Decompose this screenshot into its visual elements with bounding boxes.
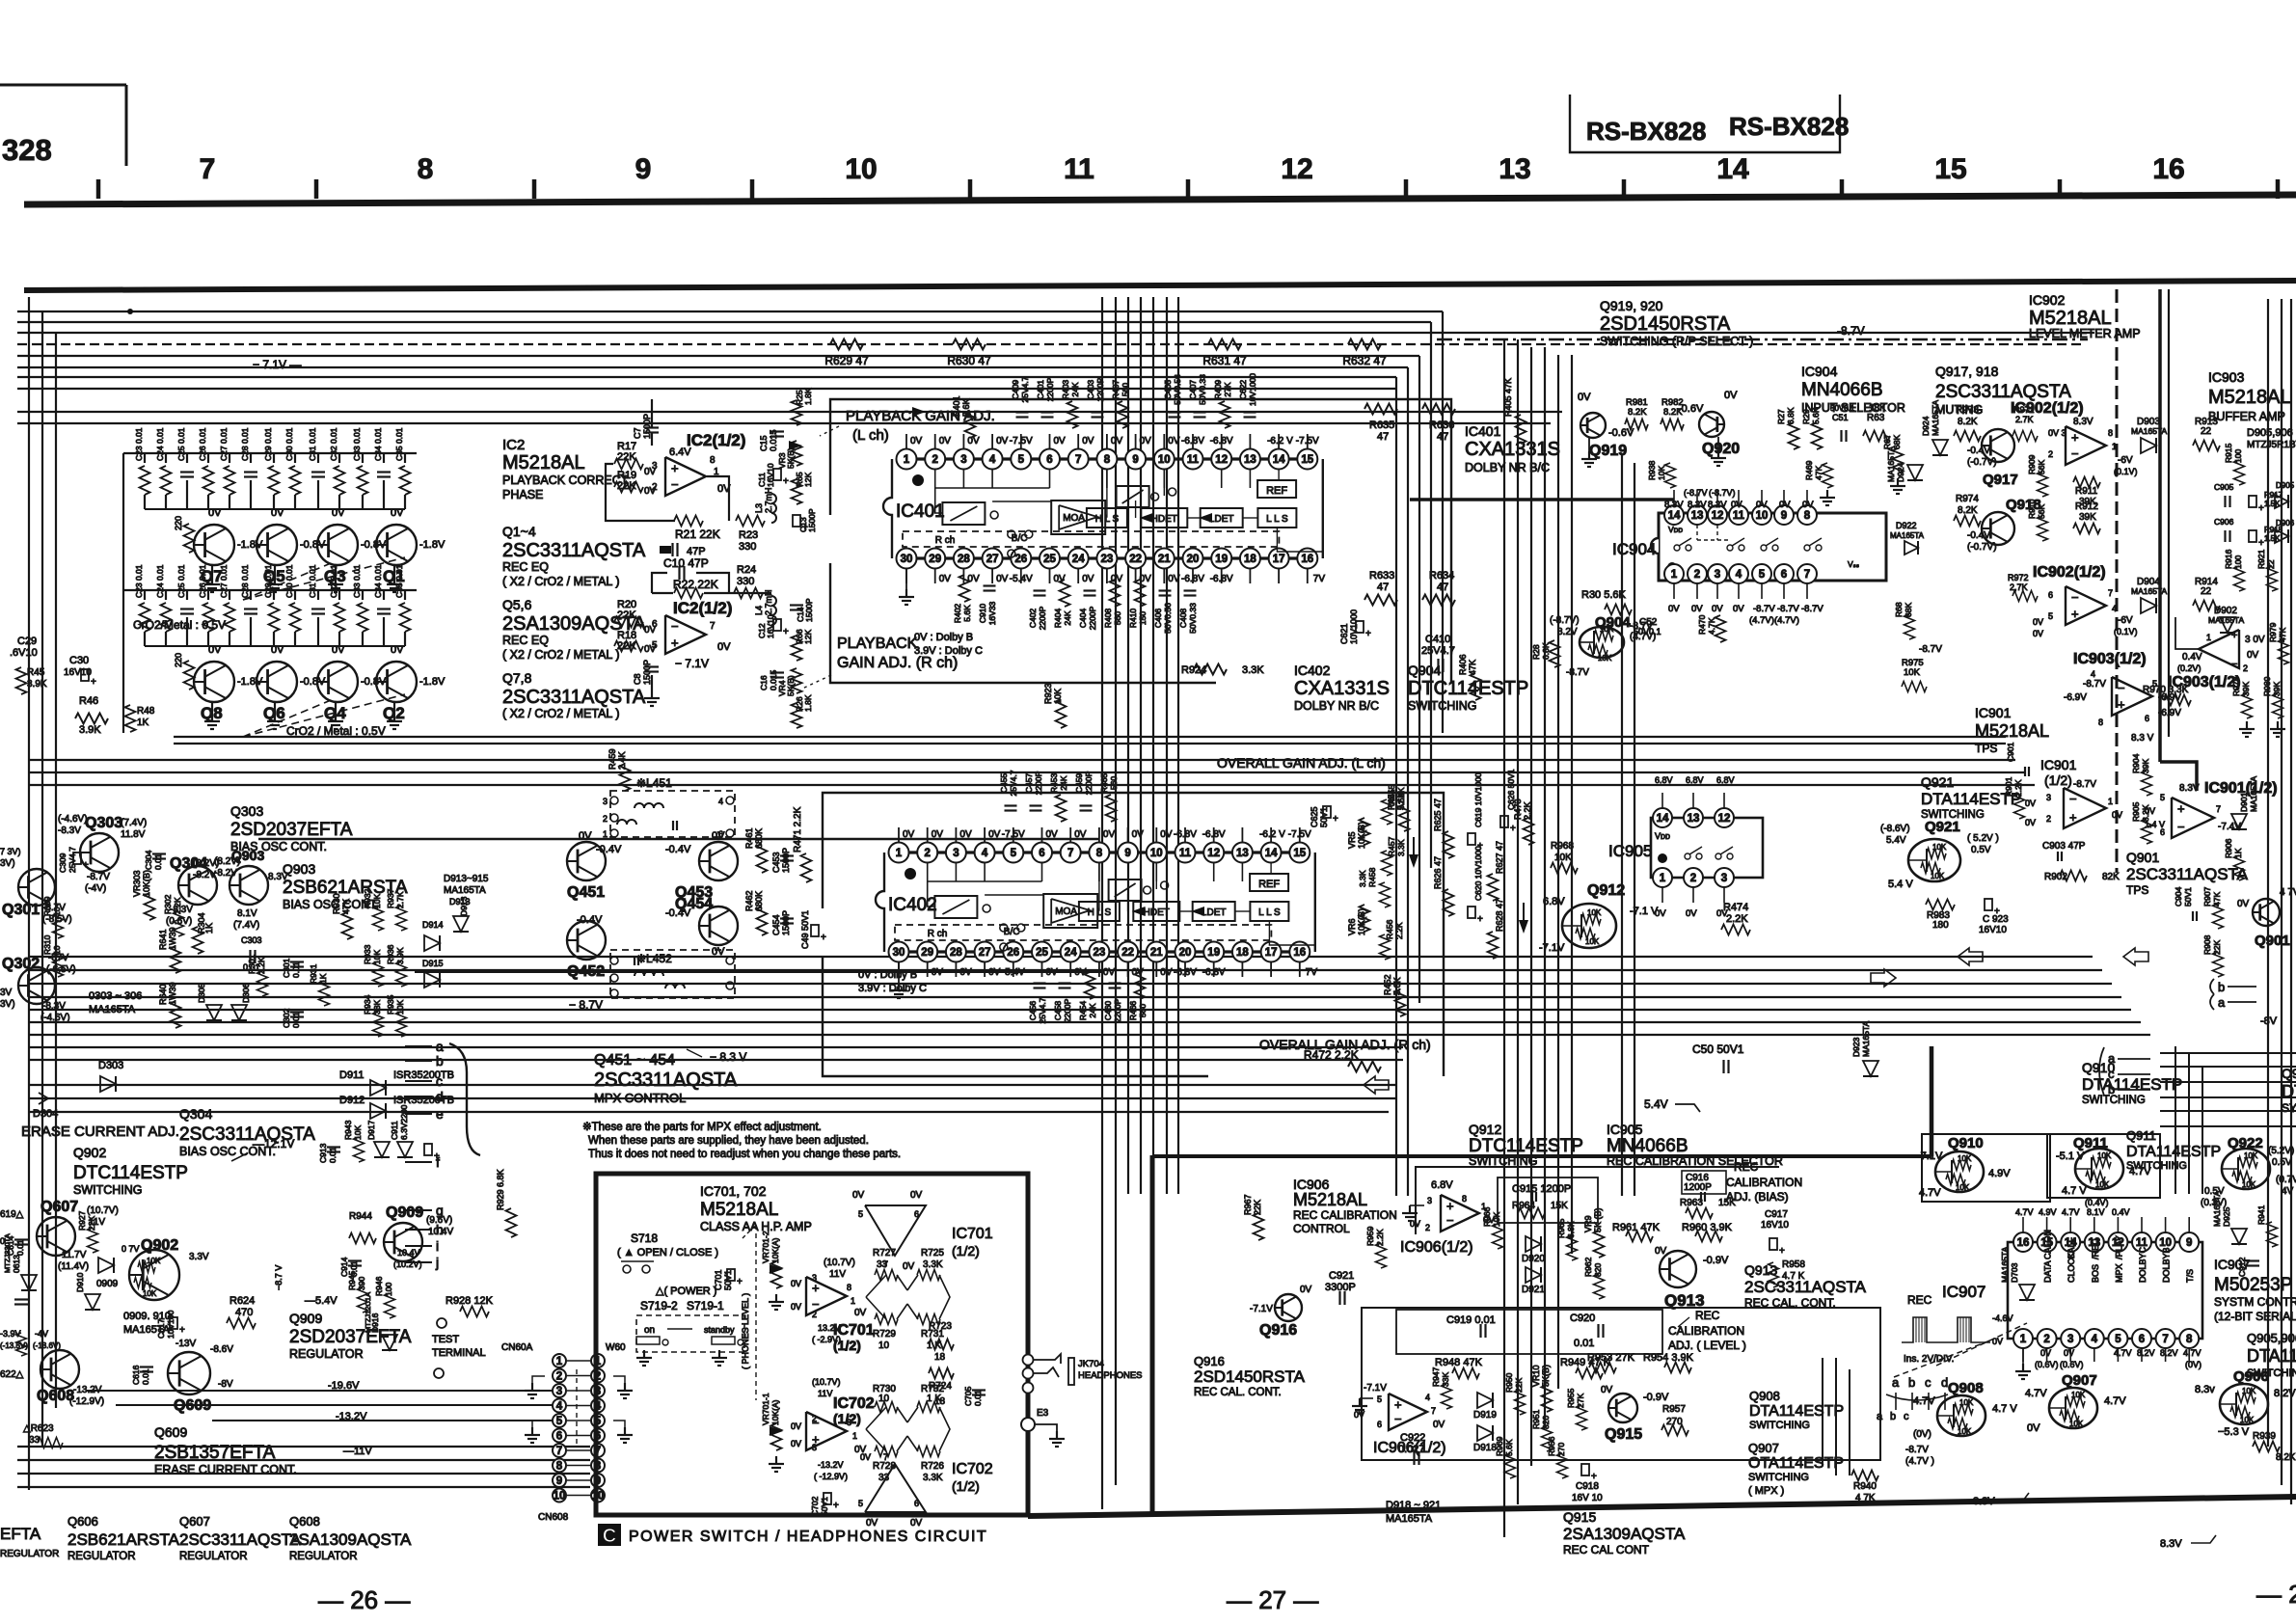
wire — [1407, 367, 1409, 1196]
svg-text:Q912: Q912 — [1587, 882, 1625, 899]
svg-text:5: 5 — [1011, 848, 1017, 859]
op-amp IC902 A — [2066, 426, 2106, 465]
C617 cap — [170, 1317, 177, 1329]
svg-text:1K: 1K — [2233, 848, 2243, 858]
svg-text:39K: 39K — [2272, 682, 2282, 696]
svg-text:C919 0.01: C919 0.01 — [1446, 1314, 1496, 1326]
svg-text:8.2K: 8.2K — [1958, 417, 1978, 427]
svg-text:27K: 27K — [1576, 1394, 1585, 1408]
wire — [2188, 1053, 2190, 1194]
component R403 — [1067, 401, 1078, 428]
IC907 pin 3 — [2061, 1329, 2080, 1348]
svg-text:22K: 22K — [617, 640, 636, 652]
svg-text:2SC3311AQSTA: 2SC3311AQSTA — [179, 1530, 302, 1549]
IC402 pin stubs top — [898, 827, 900, 842]
svg-text:10: 10 — [52, 907, 62, 916]
svg-text:REC CAL. CONT.: REC CAL. CONT. — [1194, 1387, 1282, 1398]
svg-text:S719-1: S719-1 — [687, 1299, 724, 1313]
svg-text:/PLAY: /PLAY — [2114, 1235, 2123, 1259]
svg-text:Q607: Q607 — [41, 1199, 78, 1215]
svg-text:CXA1331S: CXA1331S — [1294, 678, 1390, 699]
VR4 chain — [792, 636, 802, 661]
svg-text:SWITCHING: SWITCHING — [1408, 699, 1477, 713]
R914 resistor — [2193, 601, 2220, 611]
svg-text:0V: 0V — [2040, 1348, 2051, 1358]
svg-text:C51: C51 — [1832, 413, 1849, 422]
svg-text:REGULATOR: REGULATOR — [68, 1551, 136, 1562]
svg-text:Q304: Q304 — [179, 1106, 212, 1122]
svg-text:Q912: Q912 — [1469, 1122, 1501, 1137]
CN60A pin 8 — [553, 1459, 566, 1473]
svg-text:2.2K: 2.2K — [1396, 787, 1406, 804]
svg-text:C920: C920 — [1570, 1313, 1595, 1324]
svg-text:0V: 0V — [1992, 1337, 2003, 1346]
component C402 — [1034, 589, 1046, 591]
svg-text:220: 220 — [174, 653, 183, 667]
svg-text:2200P: 2200P — [1095, 377, 1105, 401]
svg-text:R471 2.2K: R471 2.2K — [793, 806, 803, 853]
R459 resistor — [620, 764, 631, 791]
svg-text:0V: 0V — [1802, 500, 1814, 510]
svg-text:c: c — [1925, 1375, 1931, 1390]
svg-text:−: − — [2071, 590, 2079, 605]
svg-text:(10.7V): (10.7V) — [824, 1258, 855, 1268]
svg-text:R457: R457 — [1387, 836, 1396, 856]
wire — [17, 1486, 590, 1488]
transistor Q5 — [257, 525, 297, 565]
svg-text:C913: C913 — [318, 1143, 328, 1163]
svg-text:MA165TA: MA165TA — [2212, 1191, 2222, 1227]
IC401 pin 26 — [1011, 549, 1031, 569]
R906 resistor — [2234, 855, 2245, 880]
svg-text:R901: R901 — [2004, 776, 2013, 797]
wire — [17, 343, 2083, 345]
inline resistor R632 — [1348, 339, 1381, 350]
svg-text:VR701-2: VR701-2 — [761, 1231, 770, 1263]
svg-text:IC702: IC702 — [833, 1395, 875, 1412]
svg-text:MA165TA: MA165TA — [2131, 426, 2167, 436]
svg-text:3.9K: 3.9K — [395, 947, 405, 964]
svg-text:2.2K: 2.2K — [173, 897, 182, 914]
component C455 — [1005, 804, 1017, 806]
svg-text:560: 560 — [1138, 1004, 1148, 1017]
svg-text:Q451 ~ 454: Q451 ~ 454 — [594, 1052, 675, 1069]
svg-text:0 7V: 0 7V — [122, 1244, 140, 1254]
svg-text:0.01: 0.01 — [141, 1368, 150, 1385]
svg-text:+: + — [783, 476, 789, 487]
svg-text:C23 0.01: C23 0.01 — [134, 564, 144, 598]
svg-text:REC CALIBRATION: REC CALIBRATION — [1293, 1208, 1397, 1222]
R628 resistor — [1488, 932, 1499, 959]
R456 resistor — [1380, 934, 1391, 960]
L452 dashed box — [610, 950, 735, 998]
R965 resistor — [1567, 1235, 1578, 1260]
R474 resistor — [1721, 925, 1750, 935]
svg-text:11: 11 — [1064, 153, 1094, 185]
svg-text:4.7V: 4.7V — [1913, 1395, 1935, 1407]
wire — [1430, 322, 1432, 868]
svg-text:10K: 10K — [1554, 853, 1572, 863]
svg-text:10K: 10K — [2069, 1420, 2084, 1428]
svg-text:3.3V: 3.3V — [189, 1252, 209, 1262]
C912 cap — [2246, 1259, 2259, 1261]
svg-text:D919: D919 — [1473, 1410, 1497, 1421]
svg-text:LEVEL METER AMP: LEVEL METER AMP — [2029, 327, 2141, 340]
component R409 — [1220, 401, 1230, 428]
wire — [29, 771, 2025, 773]
svg-text:2: 2 — [556, 1371, 562, 1383]
svg-text:5: 5 — [1759, 569, 1766, 581]
svg-text:Q902: Q902 — [73, 1145, 106, 1160]
IC904 pin 8 — [1797, 505, 1817, 525]
svg-text:7: 7 — [556, 1446, 562, 1457]
svg-text:50V0.1: 50V0.1 — [1634, 627, 1661, 636]
R68 resistor — [1904, 614, 1915, 639]
svg-text:10: 10 — [1756, 510, 1769, 522]
component C404 — [1084, 589, 1096, 591]
transistor Q912 dtr — [1562, 904, 1616, 948]
svg-text:+: + — [833, 1501, 839, 1511]
svg-text:(0.6V): (0.6V) — [2060, 1360, 2084, 1369]
IC402 internal limiter 2 — [1109, 880, 1142, 901]
svg-text:47: 47 — [1377, 431, 1389, 443]
svg-text:39K: 39K — [2079, 512, 2096, 523]
svg-text:2.7K: 2.7K — [395, 891, 405, 908]
svg-text:-6.2 V: -6.2 V — [1259, 829, 1285, 840]
svg-text:2.2K: 2.2K — [257, 957, 266, 974]
svg-text:10K: 10K — [1585, 937, 1600, 946]
R406 resistor — [1471, 673, 1481, 700]
svg-text:2SD2037EFTA: 2SD2037EFTA — [289, 1327, 412, 1347]
C410 cap — [1437, 659, 1439, 672]
svg-text:3.3K: 3.3K — [1358, 870, 1367, 887]
R908 resistor — [2213, 952, 2224, 977]
svg-text:R960 3.9K: R960 3.9K — [1682, 1222, 1733, 1233]
svg-text:4 7V: 4 7V — [2280, 887, 2296, 898]
svg-text:CONTROL: CONTROL — [1293, 1222, 1350, 1235]
svg-text:7: 7 — [200, 153, 216, 185]
svg-text:Q609: Q609 — [154, 1424, 187, 1440]
svg-text:+: + — [2118, 697, 2125, 712]
IC402 LDET box — [1193, 902, 1235, 921]
svg-text:R309: R309 — [42, 896, 52, 916]
svg-text:Q911: Q911 — [2126, 1128, 2156, 1143]
svg-text:1: 1 — [904, 454, 910, 466]
svg-text:8: 8 — [556, 1461, 563, 1473]
svg-text:0V: 0V — [910, 1190, 923, 1201]
svg-text:560: 560 — [1109, 776, 1119, 790]
dashed select lines — [243, 694, 405, 737]
svg-text:24K: 24K — [1070, 382, 1080, 396]
svg-text:6: 6 — [1046, 454, 1052, 466]
R302 resistor — [174, 911, 184, 936]
IC401 pin 30 — [897, 549, 917, 569]
svg-text:REC: REC — [1695, 1309, 1720, 1322]
svg-text:8.3V: 8.3V — [2073, 417, 2093, 427]
svg-text:16V10: 16V10 — [64, 667, 92, 678]
svg-text:8.2V: 8.2V — [1557, 627, 1578, 637]
svg-text:12: 12 — [1207, 848, 1220, 859]
R907 resistor — [2213, 904, 2224, 929]
svg-text:12: 12 — [1281, 153, 1312, 185]
svg-text:9: 9 — [556, 1475, 562, 1487]
IC907 pin 16 — [2013, 1232, 2033, 1252]
R30 resistor — [1605, 605, 1632, 615]
svg-text:-8.7V: -8.7V — [1801, 604, 1823, 614]
svg-text:0V: 0V — [967, 574, 980, 584]
svg-text:S719-2: S719-2 — [640, 1299, 678, 1313]
svg-text:-13.2V: -13.2V — [818, 1460, 844, 1470]
resistor R22 — [674, 588, 703, 599]
svg-text:13: 13 — [1499, 153, 1530, 185]
bridge IC702 — [875, 1402, 898, 1413]
IC402 internal MOA — [1043, 894, 1097, 928]
svg-text:C626 50V1: C626 50V1 — [1506, 769, 1516, 810]
collector curve — [449, 1043, 480, 1155]
svg-text:M5218AL: M5218AL — [1975, 721, 2049, 741]
C619 cap — [1468, 833, 1475, 845]
D903 diode — [2141, 438, 2156, 453]
svg-text:-0.9V: -0.9V — [1703, 1255, 1729, 1266]
resistor R24 — [734, 588, 763, 599]
svg-text:j: j — [435, 1255, 439, 1270]
wire — [29, 1034, 2150, 1036]
C915 cap — [1531, 1192, 1533, 1202]
svg-text:IC701, 702: IC701, 702 — [700, 1183, 767, 1199]
svg-text:IC402: IC402 — [1294, 663, 1331, 678]
svg-text:R24: R24 — [737, 564, 756, 576]
EQ bias resistor — [184, 524, 195, 553]
svg-text:(12-BIT SERIAL ): (12-BIT SERIAL ) — [2214, 1310, 2296, 1323]
svg-text:C10 47P: C10 47P — [663, 556, 709, 570]
svg-text:50V0.33: 50V0.33 — [1188, 603, 1198, 634]
svg-text:15K: 15K — [1551, 1201, 1568, 1211]
R912 resistor — [2073, 524, 2100, 534]
svg-text:1K: 1K — [318, 973, 328, 984]
svg-text:6.3V2200: 6.3V2200 — [399, 1104, 409, 1140]
svg-text:4: 4 — [2091, 669, 2095, 679]
resistor R982 — [1661, 420, 1684, 430]
R967 resistor — [1254, 1213, 1264, 1240]
svg-text:R945: R945 — [347, 1270, 357, 1290]
R405 resistor — [1516, 415, 1526, 444]
svg-text:M5218AL: M5218AL — [700, 1200, 778, 1220]
R971 resistor — [2012, 431, 2038, 442]
ruler tick — [96, 179, 101, 199]
svg-text:C701: C701 — [714, 1269, 723, 1290]
ground IC907 pin1 — [2022, 1348, 2024, 1364]
svg-text:10K: 10K — [1657, 466, 1666, 480]
svg-text:22K: 22K — [87, 1216, 96, 1231]
inline resistor R630 — [953, 339, 986, 350]
svg-text:REC CAL CONT: REC CAL CONT — [1563, 1543, 1650, 1556]
svg-text:39K: 39K — [2141, 759, 2150, 773]
svg-text:R729: R729 — [873, 1329, 896, 1340]
svg-text:C24 0.01: C24 0.01 — [155, 564, 165, 598]
svg-text:10K: 10K — [1956, 1183, 1970, 1192]
svg-text:619△: 619△ — [0, 1209, 24, 1220]
svg-text:C30 0.01: C30 0.01 — [284, 564, 294, 598]
svg-text:ERASE CURRENT CONT.: ERASE CURRENT CONT. — [154, 1463, 297, 1476]
transistor Q911 dtr — [2075, 1149, 2123, 1189]
svg-text:(0.6V): (0.6V) — [166, 916, 192, 927]
IC401 pin 3 — [954, 449, 974, 470]
svg-text:0V: 0V — [391, 644, 404, 656]
svg-text:22K: 22K — [1514, 1378, 1524, 1393]
svg-text:8.1V: 8.1V — [2087, 1207, 2105, 1217]
hollow arrow left edge — [2123, 948, 2148, 965]
R458 resistor — [1380, 882, 1391, 907]
svg-text:17: 17 — [1273, 554, 1285, 565]
svg-text:2200P: 2200P — [1045, 377, 1055, 401]
svg-text:0V: 0V — [1168, 436, 1180, 447]
svg-text:IC902: IC902 — [2029, 292, 2066, 308]
svg-text:0.4V: 0.4V — [2182, 652, 2202, 663]
IC401 R ch dashed box — [903, 531, 1279, 547]
svg-text:6.8K: 6.8K — [1786, 407, 1796, 424]
IC401 pin 4 — [983, 449, 1003, 470]
C304 cap — [152, 853, 166, 854]
svg-text:-8.6V: -8.6V — [210, 1344, 233, 1355]
svg-text:0V: 0V — [332, 507, 345, 519]
heavy horizontal y1199 — [1152, 1154, 1931, 1158]
svg-text:R904: R904 — [2131, 753, 2141, 773]
wire — [29, 956, 2093, 958]
svg-text:47: 47 — [1377, 582, 1389, 593]
wire — [28, 297, 30, 1490]
svg-text:1.8K: 1.8K — [803, 694, 813, 712]
svg-text:9: 9 — [1124, 848, 1130, 859]
svg-text:+: + — [1446, 1199, 1454, 1213]
svg-text:1W39: 1W39 — [168, 982, 177, 1005]
IC402 pin 27 — [975, 942, 995, 962]
IC907 pin 12 — [2108, 1232, 2127, 1252]
svg-text:6: 6 — [2145, 714, 2149, 723]
svg-text:4.7V: 4.7V — [2025, 1388, 2047, 1399]
wire — [2160, 1066, 2296, 1068]
svg-text:REC EQ: REC EQ — [502, 634, 549, 647]
svg-text:IC2(1/2): IC2(1/2) — [687, 431, 745, 449]
svg-text:10K: 10K — [1931, 872, 1945, 880]
svg-text:8.2K: 8.2K — [1663, 407, 1683, 418]
svg-text:C29 0.01: C29 0.01 — [263, 427, 273, 461]
svg-text:C304: C304 — [144, 850, 153, 870]
svg-text:Q915: Q915 — [1563, 1509, 1596, 1525]
svg-text:9: 9 — [635, 153, 652, 185]
svg-text:R966: R966 — [1482, 1206, 1492, 1227]
EQ component — [338, 453, 340, 463]
svg-text:C705: C705 — [963, 1386, 973, 1406]
svg-text:1: 1 — [2020, 1334, 2027, 1345]
svg-text:0V: 0V — [271, 507, 284, 519]
svg-text:4V: 4V — [2282, 1186, 2294, 1197]
svg-text:R23: R23 — [739, 529, 758, 541]
svg-text:TPS: TPS — [2126, 883, 2148, 897]
IC401 pin 21 — [1154, 549, 1175, 569]
svg-text:13: 13 — [1691, 510, 1704, 522]
transistor Q453 — [699, 842, 738, 880]
IC401 internal limiter 1 — [942, 502, 985, 525]
svg-text:(1/2): (1/2) — [952, 1243, 980, 1259]
svg-text:RS-BX828: RS-BX828 — [1586, 117, 1706, 146]
svg-text:47K: 47K — [1814, 466, 1823, 480]
ruler tick — [1404, 179, 1409, 199]
svg-text:100: 100 — [2233, 555, 2243, 569]
IC401 LDET box — [1201, 508, 1243, 528]
title box RS-BX828 — [1570, 95, 1840, 152]
R948 resistor — [1452, 1368, 1479, 1379]
transistor Q6 — [257, 662, 297, 702]
svg-text:0.01: 0.01 — [153, 853, 163, 870]
ruler tick — [1622, 179, 1627, 199]
D703 diode — [2019, 1285, 2035, 1300]
EQ component — [317, 453, 319, 463]
svg-text:+: + — [83, 860, 89, 871]
svg-text:2: 2 — [2043, 1334, 2049, 1345]
svg-text:7V: 7V — [1306, 967, 1318, 978]
W60 pin 3 — [591, 1384, 605, 1397]
svg-text:R972: R972 — [2008, 573, 2029, 582]
svg-text:16V33: 16V33 — [987, 601, 997, 625]
svg-text:7: 7 — [2108, 588, 2113, 598]
svg-text:-8.3V: -8.3V — [58, 826, 81, 836]
op-amp IC902 B — [2066, 586, 2106, 625]
IC905 pin 1 — [1653, 868, 1672, 887]
svg-text:PHASE: PHASE — [502, 488, 543, 501]
svg-text:R938: R938 — [1647, 460, 1657, 480]
svg-text:10: 10 — [52, 945, 62, 955]
svg-text:0.01: 0.01 — [291, 1012, 301, 1028]
svg-text:R723: R723 — [929, 1321, 952, 1332]
svg-text:+: + — [783, 627, 789, 637]
svg-text:47K: 47K — [341, 899, 351, 914]
hollow arrow left — [1958, 948, 1983, 965]
svg-text:MA165TA: MA165TA — [2208, 615, 2244, 625]
svg-text:4.7V: 4.7V — [2015, 1207, 2034, 1217]
C922 cap — [1413, 1451, 1415, 1465]
IC402 pin 16 — [1289, 942, 1310, 962]
svg-text:—5.4V: —5.4V — [305, 1295, 338, 1307]
svg-text:4.7V: 4.7V — [1919, 1187, 1941, 1199]
svg-text:C29: C29 — [17, 636, 37, 647]
transistor Q917 — [1982, 429, 2014, 462]
C303 cap — [249, 950, 251, 963]
svg-text:D304: D304 — [33, 1108, 58, 1120]
capacitor C15 — [770, 430, 784, 432]
svg-text:0V: 0V — [866, 1518, 878, 1529]
svg-text:-13.2V: -13.2V — [336, 1411, 367, 1422]
svg-text:10K: 10K — [1958, 1427, 1972, 1436]
svg-text:R68: R68 — [1894, 602, 1904, 617]
wire — [17, 1459, 590, 1461]
ruler tick — [314, 179, 319, 199]
svg-text:5.6K: 5.6K — [1504, 1439, 1514, 1456]
heavy dashed page divider — [2116, 289, 2119, 873]
IC402 pin 25 — [1032, 942, 1052, 962]
svg-text:18: 18 — [1236, 947, 1249, 959]
svg-text:Q303: Q303 — [230, 803, 263, 819]
svg-text:C619 10V1000: C619 10V1000 — [1473, 772, 1483, 827]
svg-text:2.2K: 2.2K — [1726, 913, 1748, 925]
diode D304 — [29, 1097, 44, 1099]
IC401 pin 9 — [1125, 449, 1146, 470]
IC907 pin 11 — [2132, 1232, 2151, 1252]
svg-text:DOLBY NR B/C: DOLBY NR B/C — [1465, 461, 1550, 474]
svg-text:C27 0.01: C27 0.01 — [219, 427, 229, 461]
svg-text:R978: R978 — [2231, 676, 2241, 696]
svg-text:Q9: Q9 — [2282, 1066, 2296, 1081]
svg-text:CLOCK: CLOCK — [2066, 1253, 2076, 1283]
